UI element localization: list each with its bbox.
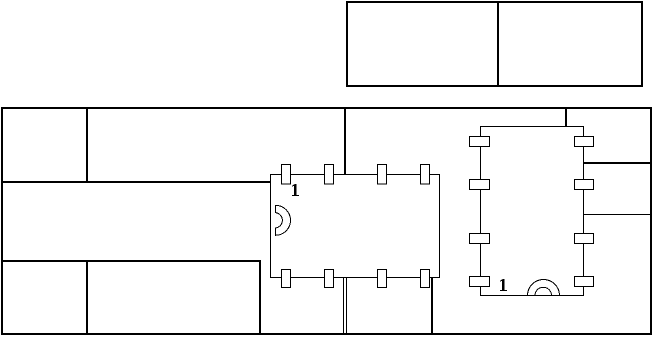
trace segment V1 [86, 107, 88, 183]
board outline [2, 108, 651, 334]
wire from top edge to U2 [565, 107, 567, 127]
trace segment HL1 right of U2 [584, 162, 651, 164]
U1 pin 7 pad [325, 270, 334, 288]
trace segment V2 [259, 260, 261, 334]
U1 pin 1 pad [282, 165, 291, 185]
top panel divider [497, 1, 499, 86]
U2 pin 2 pad [470, 234, 490, 244]
wire pair below U1 right [346, 277, 348, 334]
U1 pin 5 pad [421, 270, 430, 288]
wire pair below U1 left [343, 277, 345, 334]
U1 pin 6 pad [378, 270, 387, 288]
U2 pin 8 pad [575, 277, 594, 287]
U1 pin 8 pad [282, 270, 291, 288]
trace segment H1 [1, 181, 271, 183]
wire from top edge to U1 [344, 107, 346, 175]
U2 pin 7 pad [575, 234, 594, 244]
U2 pin 1 pad [470, 277, 490, 287]
component outline box (top panel) [347, 2, 642, 86]
U2 notch [528, 280, 560, 296]
U1 notch [276, 205, 291, 235]
trace segment H2 [1, 260, 261, 262]
U1 pin 2 pad [325, 165, 334, 185]
trace segment HL2 right of U2 [584, 214, 651, 216]
wire below U1 pin 5 [431, 277, 433, 334]
U1 pin 4 pad [421, 165, 430, 185]
U2 pin 1 label [500, 279, 507, 291]
IC U1 body [271, 175, 440, 278]
U2 pin 5 pad [575, 137, 594, 147]
U1 pin 1 label [292, 184, 299, 196]
U2 pin 4 pad [470, 137, 490, 147]
U2 pin 3 pad [470, 180, 490, 190]
U1 pin 3 pad [378, 165, 387, 185]
trace segment V3 [86, 260, 88, 334]
U2 pin 6 pad [575, 180, 594, 190]
IC U2 body [481, 127, 584, 296]
